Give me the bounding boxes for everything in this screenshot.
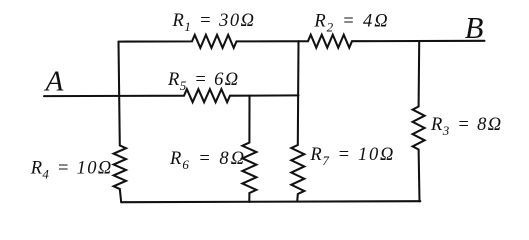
svg-text:R7 = 10Ω: R7 = 10Ω bbox=[309, 145, 395, 168]
svg-text:B: B bbox=[465, 11, 484, 45]
svg-text:R2 = 4Ω: R2 = 4Ω bbox=[313, 12, 389, 35]
svg-text:R6 = 8Ω: R6 = 8Ω bbox=[169, 149, 246, 172]
svg-text:R3 = 8Ω: R3 = 8Ω bbox=[430, 115, 503, 138]
svg-text:R4 = 10Ω: R4 = 10Ω bbox=[30, 159, 113, 182]
svg-text:R1 = 30Ω: R1 = 30Ω bbox=[172, 11, 256, 34]
svg-text:R5 = 6Ω: R5 = 6Ω bbox=[167, 70, 240, 93]
svg-text:A: A bbox=[44, 66, 64, 98]
